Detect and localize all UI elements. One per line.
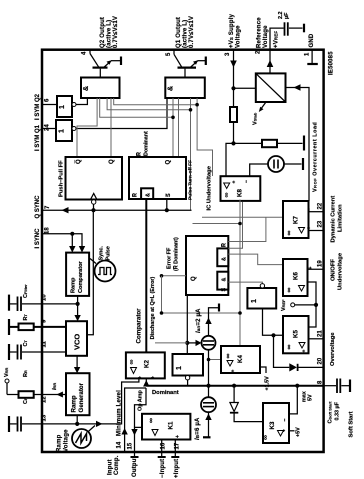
pin 23 wire (309, 230, 324, 232)
wire Vs rail to overcurrent resistor (234, 142, 263, 144)
svg-text:(active L): (active L) (183, 20, 189, 48)
svg-text:13: 13 (42, 414, 48, 421)
svg-text:+: + (307, 226, 313, 229)
svg-text:Voltage: Voltage (236, 25, 242, 48)
error FF output left to K2 rail (162, 275, 187, 277)
gray rail K8 out down to K4 (239, 200, 241, 347)
svg-text:Comparator: Comparator (136, 308, 143, 344)
svg-text:ON/OFF: ON/OFF (331, 259, 337, 281)
wire phase comparator to VCO (77, 296, 79, 315)
VREF to K6 (308, 282, 317, 305)
svg-text:K2: K2 (144, 359, 151, 367)
svg-text:3: 3 (225, 52, 231, 56)
svg-text:&: & (222, 278, 228, 282)
svg-text:Comp.: Comp. (114, 455, 120, 475)
wire pin 9 to VCO (42, 326, 66, 328)
svg-text:Pulse: Pulse (106, 246, 112, 260)
svg-text:21: 21 (318, 330, 324, 337)
gray wire error FF to ON/OFF inverter (228, 282, 262, 284)
svg-text:Pulse Turn-off FF: Pulse Turn-off FF (188, 160, 194, 200)
svg-text:Push–Pull FF: Push–Pull FF (59, 160, 65, 197)
svg-text:(R̅ Dominant): (R̅ Dominant) (173, 237, 180, 271)
svg-text:Soft Start: Soft Start (349, 411, 355, 437)
svg-text:S̅: S̅ (221, 288, 228, 292)
op amp K1 box (142, 414, 190, 440)
svg-text:R̅: R̅ (132, 193, 139, 197)
K4 output to soft start node (209, 359, 222, 361)
+1.5V input to K4 (260, 367, 266, 373)
R-AND box inside pulse turnoff FF (141, 188, 153, 199)
svg-text:Input: Input (108, 459, 114, 475)
svg-text:10: 10 (42, 294, 48, 301)
AND gate for Q1 output (165, 78, 205, 99)
wire pin 12 with IR arrow (42, 394, 66, 396)
svg-text:CT: CT (23, 340, 29, 347)
svg-text:&: & (83, 86, 90, 91)
svg-text:Voltage: Voltage (263, 25, 269, 48)
inverter gate I SYM Q1 (56, 120, 72, 141)
pin 22 wire (309, 211, 324, 213)
external resistor RR (7, 391, 42, 398)
gray bus wire B (107, 98, 190, 110)
gray line K6 rail to FF region (193, 223, 241, 225)
svg-text:&: & (168, 86, 175, 91)
Pulse Turn-off FF box (129, 157, 186, 199)
K3 minus input from soft start net (289, 386, 297, 414)
wire 2uA down to dominant net (208, 350, 210, 386)
reference block with diagonal (256, 73, 286, 102)
external filter capacitor (9, 295, 42, 311)
svg-text:12: 12 (42, 396, 48, 403)
pin 17 (174, 440, 176, 458)
resistor to VROF terminal (262, 140, 277, 147)
svg-text:+Input: +Input (174, 459, 180, 478)
svg-text:1: 1 (59, 129, 66, 133)
svg-text:IRR: IRR (52, 383, 58, 390)
svg-text:IC Undervoltage: IC Undervoltage (207, 165, 213, 210)
svg-text:Ian=2 µA: Ian=2 µA (196, 308, 202, 333)
wire to reference block (234, 87, 256, 89)
svg-text:K8: K8 (237, 189, 244, 197)
external capacitor CT (9, 344, 66, 360)
svg-text:GND: GND (309, 33, 315, 47)
svg-text:+: + (138, 376, 144, 379)
+5V input (289, 430, 295, 432)
op amp K1 output node (135, 427, 143, 457)
branch to overvoltage diode (274, 335, 290, 367)
border frame of IC (42, 50, 324, 452)
overvoltage diode to pin 20 (289, 363, 297, 371)
svg-text:Q: Q (166, 160, 172, 165)
K4 comparator box (221, 346, 260, 373)
svg-text:Q: Q (191, 276, 197, 281)
svg-text:19: 19 (318, 260, 324, 267)
K5 comparator box (283, 316, 309, 353)
svg-text:Q: Q (109, 159, 115, 164)
wire pin 18 (42, 234, 82, 246)
svg-text:∞: ∞ (224, 193, 231, 198)
wire VCO to FF clock (93, 204, 95, 210)
external soft start capacitor (324, 379, 350, 394)
svg-text:20: 20 (318, 357, 324, 364)
svg-text:µF: µF (284, 12, 290, 19)
svg-text:Overvoltage: Overvoltage (330, 332, 336, 366)
svg-text:Q2 Output: Q2 Output (100, 17, 106, 48)
svg-text:+: + (151, 376, 157, 379)
svg-text:+VREF: +VREF (274, 31, 280, 48)
svg-text:+: + (175, 435, 181, 438)
wire inverter1 to AND1 (76, 98, 87, 105)
svg-text:VRR: VRR (4, 368, 10, 377)
svg-text:Op Amp: Op Amp (138, 390, 144, 411)
wire pin 6 (42, 104, 57, 106)
svg-text:RT: RT (23, 314, 29, 321)
svg-text:K6: K6 (293, 271, 300, 279)
svg-text:23: 23 (318, 220, 324, 227)
svg-text:VStab: VStab (253, 112, 259, 125)
gray line K7 to FF region (202, 216, 283, 218)
Vstab arrow (261, 102, 267, 110)
svg-text:K5: K5 (293, 329, 300, 337)
gray bus wire A (114, 98, 197, 105)
svg-text:CFilter: CFilter (23, 284, 29, 298)
gray from left to Q node (155, 342, 187, 344)
svg-text:1: 1 (251, 299, 258, 303)
svg-text:+: + (231, 369, 237, 372)
svg-text:−: − (307, 208, 313, 211)
wire AND2 to K8 (197, 98, 212, 176)
R-AND box inside error FF (217, 248, 228, 266)
svg-text:6: 6 (45, 98, 51, 102)
external capacitor CR (9, 416, 42, 432)
svg-text:7: 7 (45, 205, 51, 209)
svg-text:R̅: R̅ (221, 243, 228, 247)
svg-text:5: 5 (166, 52, 172, 56)
error FF Q output down (186, 295, 188, 343)
svg-text:Dynamic Current: Dynamic Current (331, 196, 337, 243)
svg-text:17: 17 (175, 442, 181, 449)
svg-text:−: − (244, 180, 250, 183)
wire AND2 to pulse turnoff FF (172, 98, 174, 157)
svg-text:K4: K4 (237, 354, 244, 362)
Push-Pull FF box (66, 157, 123, 200)
svg-text:Q̅: Q̅ (75, 159, 82, 164)
svg-text:15: 15 (128, 442, 134, 449)
diode to ramp/opamp (232, 384, 236, 388)
svg-text:I SYM Q1: I SYM Q1 (35, 124, 41, 151)
svg-text:VROF Overcurrent Load: VROF Overcurrent Load (313, 122, 319, 192)
gray inputs to error FF (228, 217, 266, 241)
wire FF Q to AND1 (110, 98, 112, 157)
svg-text:IB=6 µA: IB=6 µA (195, 417, 201, 440)
ground symbol pin 1 (311, 50, 313, 63)
comparator K8 box (221, 176, 261, 201)
svg-text:Dominant: Dominant (144, 131, 150, 156)
svg-text:−Input: −Input (160, 459, 166, 478)
svg-text:Voltage: Voltage (64, 429, 70, 452)
svg-text:∞: ∞ (129, 360, 136, 365)
svg-text:Sync.: Sync. (99, 246, 105, 261)
svg-text:Limitation: Limitation (338, 204, 344, 232)
svg-text:+5V: +5V (296, 427, 302, 437)
svg-text:1: 1 (176, 366, 183, 370)
wire pin 13 ramp net (42, 378, 139, 424)
Sync Pulse circle (95, 261, 116, 282)
svg-text:0.7V≤V≤1V: 0.7V≤V≤1V (189, 16, 195, 48)
svg-text:(active L): (active L) (107, 20, 113, 48)
svg-text:I SYNC: I SYNC (35, 228, 41, 249)
svg-text:Reference: Reference (257, 17, 263, 48)
ON/OFF inverter box (247, 288, 276, 309)
svg-text:VCO: VCO (73, 334, 82, 350)
wire 2uA up to bar (209, 308, 219, 336)
wire pin 10 to phase comparator output node (42, 303, 78, 305)
inverter 1 box mid (173, 354, 204, 376)
AND gate for Q2 output (81, 78, 120, 99)
VREF to K5 (309, 305, 317, 327)
K6 comparator box (283, 259, 308, 296)
svg-text:K7: K7 (293, 215, 300, 223)
svg-text:∞: ∞ (286, 231, 293, 236)
wire pin 2 (269, 50, 271, 74)
junction node (231, 86, 235, 90)
svg-text:22: 22 (318, 202, 324, 209)
wire pin 24 (42, 128, 56, 130)
svg-text:K3: K3 (269, 421, 276, 429)
Error FF box (186, 236, 228, 295)
svg-text:24: 24 (45, 124, 51, 131)
svg-text:Generator: Generator (78, 382, 85, 412)
svg-text:Ramp: Ramp (71, 277, 77, 293)
svg-text:RR: RR (23, 370, 29, 377)
svg-text:11: 11 (42, 340, 48, 347)
svg-text:0.7V≤V≤1V: 0.7V≤V≤1V (113, 16, 119, 48)
Ramp Voltage circle (72, 429, 91, 448)
svg-text:K1: K1 (168, 421, 175, 429)
pin 21 wire (309, 338, 324, 340)
external VREF capacitor 2.2uF (270, 12, 304, 50)
VCO box (66, 321, 87, 356)
S-AND box inside error FF (217, 272, 228, 290)
wire VCO to Ramp Generator (76, 356, 78, 367)
current source for K8 (268, 156, 284, 172)
wire pin 4 (89, 50, 91, 54)
resistor on supply rail (230, 107, 237, 122)
wire sync branch (71, 234, 73, 246)
svg-text:Ramp: Ramp (71, 395, 78, 412)
svg-text:Output: Output (132, 456, 138, 477)
svg-text:Ramp: Ramp (57, 434, 63, 452)
wire ON/OFF inverter to K5 (263, 309, 284, 336)
svg-text:1: 1 (305, 52, 311, 56)
svg-text:Dominant: Dominant (152, 390, 179, 396)
svg-text:+VS Supply: +VS Supply (229, 13, 235, 48)
current source 2uA (202, 336, 216, 350)
transistor Q1 (174, 54, 206, 77)
svg-text:∞: ∞ (286, 288, 293, 293)
svg-text:14: 14 (117, 441, 123, 448)
FF clock wedge (91, 194, 97, 200)
wire inverter2 to AND2 (76, 98, 167, 129)
svg-text:18: 18 (45, 227, 51, 234)
svg-text:Comparator: Comparator (78, 260, 84, 293)
arrow into 2uA source (187, 342, 195, 344)
dominant soft start net (146, 385, 323, 387)
Ramp Generator box (66, 373, 90, 415)
K2 input arrow from net (145, 378, 147, 385)
inverter gate I SYM Q2 (57, 96, 72, 117)
svg-text:VREF: VREF (281, 299, 287, 311)
wire pin 5 (173, 50, 175, 55)
svg-text:Q SYNC: Q SYNC (35, 195, 41, 219)
svg-text:∞: ∞ (148, 418, 155, 423)
K2 comparator box (126, 352, 165, 378)
transistor Q2 (90, 54, 121, 78)
svg-text:+1.5V: +1.5V (265, 376, 271, 391)
wire pin 3 supply rail (233, 50, 235, 107)
svg-text:1: 1 (59, 105, 66, 109)
svg-text:0.33 µF: 0.33 µF (335, 401, 341, 420)
svg-text:Discharge at Q=L (Error): Discharge at Q=L (Error) (150, 277, 156, 340)
K3 comparator box (263, 403, 289, 443)
svg-text:∞: ∞ (225, 354, 232, 359)
thick wire R-AND to K2 (145, 199, 147, 352)
wire reference output to overcurrent net (286, 88, 310, 202)
pin 16 (161, 440, 163, 458)
K7 comparator box (283, 201, 309, 238)
svg-text:16: 16 (161, 442, 167, 449)
svg-text:4: 4 (82, 51, 88, 55)
wire AND2 stub (178, 98, 180, 157)
wire FF Qbar to AND1 (77, 98, 97, 157)
external resistor RT (9, 319, 42, 335)
wire pin 7 qsync with arrow (42, 209, 192, 211)
wire AND2 to qsync line (190, 98, 192, 210)
svg-text:Error FF: Error FF (167, 247, 173, 269)
pin 19 wire (308, 268, 324, 270)
svg-text:∞: ∞ (263, 435, 270, 440)
ramp comparator box (66, 253, 89, 296)
svg-text:5V: 5V (308, 394, 314, 401)
svg-text:∞: ∞ (286, 345, 293, 350)
svg-text:I SYM Q2: I SYM Q2 (35, 93, 41, 120)
svg-text:R̅: R̅ (136, 152, 143, 156)
svg-text:S̅: S̅ (165, 193, 172, 197)
svg-text:&: & (222, 257, 228, 261)
svg-text:+: + (282, 429, 288, 432)
svg-text:+: + (232, 180, 238, 183)
svg-text:+: + (302, 349, 308, 352)
svg-text:−: − (283, 418, 289, 421)
pin 14 wire minimum level (125, 388, 146, 452)
svg-text:CSoft Start: CSoft Start (328, 401, 334, 424)
svg-text:&: & (146, 193, 152, 197)
current source 6uA (201, 397, 216, 412)
gray bus wire C (100, 98, 173, 117)
wire S input from qsync (166, 199, 168, 210)
svg-text:Undervoltage: Undervoltage (338, 252, 344, 290)
wire Vs rail to K8 (226, 143, 234, 176)
svg-text:+: + (308, 266, 314, 269)
svg-text:Q1 Output: Q1 Output (176, 17, 182, 48)
svg-text:IE50085: IE50085 (329, 51, 335, 75)
svg-text:Minimum Level: Minimum Level (117, 390, 123, 436)
